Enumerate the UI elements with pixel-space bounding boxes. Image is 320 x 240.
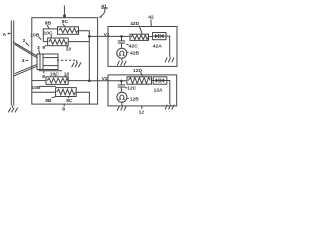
wire resistor 42D to diode box	[149, 36, 153, 38]
resistor 12D	[127, 77, 152, 84]
speaker cone 2	[13, 42, 37, 76]
node V2 junction dot	[88, 80, 91, 83]
ground (speaker frame)	[72, 60, 81, 67]
svg-text:12D: 12D	[133, 68, 142, 74]
ground (42 right)	[165, 58, 174, 63]
svg-text:A: A	[3, 32, 7, 38]
wire from resistor 8 left	[43, 29, 57, 42]
leader 12D	[141, 72, 143, 76]
svg-text:42B: 42B	[130, 50, 139, 56]
wire resistor8-lower left to loop	[32, 91, 56, 93]
wire diode box 12A to ground	[167, 81, 170, 105]
svg-text:42D: 42D	[130, 21, 139, 27]
terminal node (dot)	[63, 14, 66, 17]
svg-text:V2: V2	[102, 76, 108, 82]
transducer (speaker motor) 3	[37, 54, 58, 70]
leader 8B	[47, 25, 49, 29]
leader 42B	[127, 51, 129, 53]
leader for label 4	[25, 59, 28, 61]
svg-text:10C: 10C	[44, 30, 53, 36]
ground hatching at wall bottom	[8, 106, 17, 113]
resistor 8 (lower, 8B/8C)	[56, 88, 77, 97]
diode pair 12A	[153, 77, 167, 84]
leader for label 2	[26, 42, 29, 46]
svg-text:8B: 8B	[45, 20, 52, 26]
leader 10 lower	[65, 76, 68, 77]
svg-text:12A: 12A	[154, 88, 163, 94]
wire oscillator to ground	[121, 58, 123, 61]
box 12 (detection circuit)	[108, 75, 177, 106]
svg-text:8: 8	[62, 107, 65, 113]
wire resistor10-lower right to node V2	[68, 80, 89, 82]
leader 10C	[50, 35, 52, 38]
wire resistor8-lower right down to bottom rail	[76, 92, 89, 104]
svg-text:41: 41	[101, 3, 107, 9]
resistor 10 (upper, 10B box / 10C element)	[48, 38, 69, 46]
svg-text:10B: 10B	[30, 33, 39, 39]
wire resistor 12D to diode box	[152, 80, 154, 82]
leader for label 3	[38, 49, 41, 53]
ground (12 oscillator)	[117, 106, 126, 111]
svg-text:8: 8	[42, 74, 45, 80]
arrow from label 41	[99, 8, 108, 18]
svg-text:10: 10	[66, 46, 72, 52]
svg-text:42A: 42A	[153, 43, 162, 49]
svg-text:V1: V1	[104, 32, 110, 38]
wire V1 to box 42	[89, 35, 130, 37]
svg-text:10: 10	[64, 72, 70, 78]
svg-text:8C: 8C	[62, 19, 69, 25]
capacitor 42C	[118, 36, 125, 48]
resistor 42D	[130, 34, 149, 40]
wire from resistor 8 right to node V1 riser	[79, 31, 90, 81]
resistor 10 (lower)	[46, 77, 68, 85]
ground (12 right)	[165, 105, 174, 110]
svg-text:9: 9	[42, 45, 45, 51]
leader 9	[45, 45, 47, 46]
text labels	[3, 3, 164, 115]
svg-text:3: 3	[37, 45, 40, 51]
oscillator 42B	[117, 48, 127, 58]
svg-text:2: 2	[23, 38, 26, 44]
leader 12B	[127, 97, 129, 99]
node at capacitor 12C	[120, 80, 123, 83]
svg-text:10C: 10C	[50, 71, 59, 77]
svg-text:42C: 42C	[129, 43, 138, 49]
capacitor 12C	[118, 81, 125, 92]
leader 10B lower	[40, 85, 56, 87]
leader 8C	[63, 24, 65, 27]
label A arrow	[8, 33, 11, 35]
resistor 8 (upper, 8B box / 8C element)	[58, 27, 79, 35]
leader 42C	[126, 43, 128, 46]
leader 8B lower	[52, 97, 57, 98]
oscillator 12B	[117, 92, 127, 102]
svg-text:12: 12	[139, 109, 145, 115]
leader 10B	[39, 37, 42, 40]
wire from transducer to ground	[57, 59, 77, 61]
leader 12C	[125, 87, 127, 90]
wire resistor10-lower left to loop	[32, 80, 46, 82]
svg-text:12B: 12B	[130, 97, 139, 103]
leader line for label 8 (transducer bottom)	[39, 70, 62, 72]
tick from label 42	[150, 20, 152, 27]
ground (42 oscillator)	[117, 61, 126, 66]
node V1 junction dot	[88, 35, 91, 38]
box 42 (detection circuit)	[108, 27, 177, 67]
svg-text:8B: 8B	[45, 98, 52, 104]
wire diode box to ground	[166, 36, 170, 57]
tick from label 12	[141, 106, 143, 109]
wire oscillator 12B to ground	[121, 102, 123, 105]
wire V2 to box 12	[89, 80, 127, 82]
leader 42D	[139, 26, 142, 34]
wire into resistor 10 upper	[43, 41, 47, 43]
enclosure / wiring loop 41	[32, 18, 98, 104]
svg-text:10B: 10B	[32, 85, 41, 91]
terminal lead on top rail	[63, 6, 65, 17]
svg-text:42: 42	[148, 15, 154, 21]
svg-text:8C: 8C	[66, 98, 73, 104]
leader 8C lower	[67, 97, 70, 99]
diode pair 42A	[153, 33, 166, 40]
svg-text:4: 4	[22, 58, 25, 64]
wall (mounting panel)	[11, 21, 13, 106]
leader for bottom rail label 8	[63, 104, 65, 106]
wire from resistor 10 right	[68, 41, 89, 43]
leader 10 upper	[66, 46, 69, 48]
node at capacitor 42C	[120, 35, 123, 38]
svg-text:12C: 12C	[127, 85, 136, 91]
leader 10C lower	[54, 75, 56, 76]
